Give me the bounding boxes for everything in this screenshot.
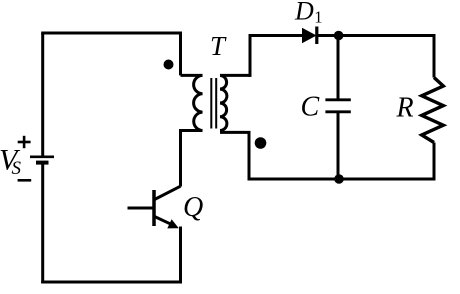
transistor Q base lead — [128, 207, 155, 210]
battery Vs long plate — [30, 156, 54, 159]
svg-text:T: T — [210, 31, 227, 61]
polarity dot primary — [164, 60, 174, 70]
wire secondary top horizontal — [220, 74, 250, 77]
capacitor C bottom plate — [325, 110, 350, 113]
polarity dot secondary — [255, 137, 267, 149]
wire battery bottom vertical — [41, 163, 44, 284]
transistor Q collector diagonal — [155, 186, 181, 199]
svg-text:S: S — [12, 158, 22, 179]
battery plus sign — [18, 136, 31, 148]
wire top-left horizontal — [41, 32, 180, 35]
svg-text:D: D — [294, 0, 314, 26]
wire bottom-right horizontal — [248, 178, 436, 181]
svg-text:Q: Q — [183, 192, 203, 223]
transformer core line 1 — [210, 78, 212, 129]
battery Vs short plate — [36, 161, 49, 165]
transistor Q emitter diagonal with arrow — [155, 217, 179, 229]
transformer T primary winding — [194, 75, 203, 130]
label Vs — [0, 144, 22, 180]
svg-text:C: C — [301, 91, 320, 122]
node junction dot bottom — [334, 174, 344, 184]
wire from diode to right corner — [317, 34, 434, 37]
svg-text:R: R — [396, 92, 414, 123]
wire top-right horizontal (to diode) — [249, 34, 304, 37]
capacitor C top plate — [325, 98, 350, 101]
diode D1 — [302, 27, 317, 45]
wire capacitor bottom vertical — [337, 112, 340, 179]
wire primary bottom horizontal — [181, 129, 203, 132]
wire primary top vertical — [179, 32, 182, 76]
wire right vertical below resistor — [433, 143, 436, 181]
wire primary top horizontal — [181, 74, 203, 77]
wire bottom-left horizontal — [41, 281, 182, 284]
wire collector vertical — [179, 129, 182, 187]
transistor Q base bar — [152, 190, 156, 226]
svg-text:1: 1 — [314, 8, 322, 27]
wire secondary bottom horizontal — [220, 131, 251, 134]
wire left vertical (battery top to top-left corner) — [41, 33, 44, 158]
wire right vertical to resistor — [433, 34, 436, 78]
transformer T secondary winding — [220, 75, 227, 130]
wire capacitor top vertical — [337, 36, 340, 101]
transformer core line 2 — [215, 78, 217, 129]
wire emitter vertical — [179, 227, 182, 284]
battery minus sign — [18, 179, 32, 182]
label D1 — [294, 0, 323, 27]
wire secondary bottom vertical — [248, 132, 251, 180]
resistor R zigzag — [422, 78, 444, 143]
wire secondary top vertical — [249, 36, 252, 77]
node junction dot top — [334, 31, 344, 41]
